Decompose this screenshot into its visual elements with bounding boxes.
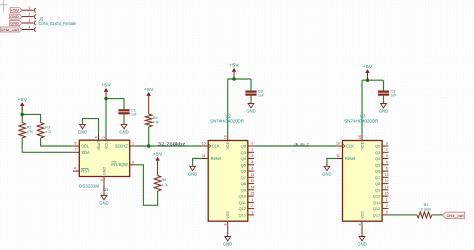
U1 pin 7 SDA — [73, 151, 79, 153]
svg-text:11: 11 — [336, 154, 340, 158]
U2 pin 15 Q10 — [248, 195, 254, 197]
svg-text:R6: R6 — [162, 178, 167, 182]
svg-text:SDA: SDA — [81, 150, 90, 155]
svg-text:GND: GND — [103, 167, 107, 176]
svg-text:Q5: Q5 — [241, 162, 247, 167]
svg-text:5: 5 — [251, 154, 253, 158]
resistor R2 — [19, 123, 26, 138]
wire VBAT to ground — [83, 119, 99, 134]
power +5V (U3) — [367, 72, 369, 81]
wire clk_div_2 net — [254, 145, 336, 147]
svg-text:Q0: Q0 — [241, 144, 247, 149]
U3 pin 10 CLK — [336, 145, 342, 147]
svg-text:Q11: Q11 — [373, 200, 381, 205]
ground below U1 — [103, 183, 105, 196]
wire C3 to ground — [383, 95, 385, 104]
svg-text:INT/SQW: INT/SQW — [111, 162, 128, 167]
connector J5 pin 1 — [22, 9, 34, 11]
svg-text:1uF: 1uF — [131, 112, 137, 116]
svg-text:Q3: Q3 — [241, 150, 247, 155]
ground (C3) — [381, 104, 387, 108]
svg-text:DS3231M: DS3231M — [79, 183, 100, 188]
global label GND (J5 pin 3) — [10, 21, 22, 26]
U2 pin 9 Q0 — [248, 145, 254, 147]
power +5V (R2/R3) — [21, 105, 23, 115]
wire C2 to ground — [250, 95, 252, 104]
svg-text:32.768khz: 32.768khz — [158, 141, 186, 146]
svg-text:SN74HC4020DR: SN74HC4020DR — [210, 119, 244, 124]
svg-text:1uF: 1uF — [258, 94, 264, 98]
svg-text:Q13: Q13 — [238, 212, 246, 217]
svg-text:GND: GND — [322, 171, 331, 176]
U3 pin 5 Q4 — [382, 158, 388, 160]
svg-text:Q5: Q5 — [375, 162, 381, 167]
svg-text:Q0: Q0 — [375, 144, 381, 149]
svg-text:Q6: Q6 — [241, 169, 247, 174]
U2 pin 12 Q8 — [248, 183, 254, 185]
svg-text:GND: GND — [119, 129, 128, 134]
U1 pin 3 INT/SQW — [130, 164, 136, 166]
svg-text:GND: GND — [246, 109, 255, 114]
svg-text:CLK: CLK — [346, 144, 354, 149]
U2 pin 14 Q9 — [248, 189, 254, 191]
wire R1 to 1Hz_out label — [432, 214, 443, 216]
svg-text:1: 1 — [251, 198, 253, 202]
svg-text:GND: GND — [379, 109, 388, 114]
svg-text:1Hz_out: 1Hz_out — [1, 28, 19, 32]
svg-text:3: 3 — [28, 19, 30, 23]
svg-text:VBAT: VBAT — [97, 140, 101, 150]
junction (R5 on clock net) — [147, 144, 150, 147]
svg-text:+5V: +5V — [363, 64, 373, 69]
wire +5V to R2/R3 tops — [21, 107, 23, 123]
svg-text:Q3: Q3 — [375, 150, 381, 155]
U2 pin 7 Q3 — [248, 151, 254, 153]
wire +5V rail U2 — [228, 78, 251, 80]
svg-text:Q4: Q4 — [375, 156, 381, 161]
U3 pin 7 Q3 — [382, 151, 388, 153]
svg-text:GND: GND — [99, 200, 108, 205]
op-amp U1 body (DS3231M RTC) — [79, 140, 129, 176]
wire R2 to SDA — [22, 138, 73, 152]
U3 pin 16 VDD — [361, 134, 363, 140]
svg-text:SCL: SCL — [81, 144, 90, 149]
svg-text:Q8: Q8 — [241, 181, 247, 186]
svg-text:3: 3 — [251, 211, 253, 215]
svg-text:VCC: VCC — [105, 141, 109, 149]
svg-text:VDD: VDD — [226, 141, 230, 149]
U1 pin 1 32KHZ — [130, 145, 136, 147]
power +5V (U1 VCC) — [105, 91, 107, 99]
svg-text:11: 11 — [202, 154, 206, 158]
svg-text:7: 7 — [386, 148, 388, 152]
connector J5 pin 3 — [22, 22, 34, 24]
U2 pin 10 CLK — [202, 145, 208, 147]
global label +5V (J5 pin 1) — [10, 8, 22, 13]
svg-text:GND: GND — [357, 242, 366, 247]
wire +5V to VCC and C1 — [105, 99, 107, 135]
svg-text:Q7: Q7 — [375, 175, 381, 180]
U3 pin 11 Reset — [336, 158, 342, 160]
U3 pin 8 VSS — [361, 221, 363, 227]
svg-text:Q7: Q7 — [241, 175, 247, 180]
U1 pin 4 RST — [73, 170, 79, 172]
svg-text:8: 8 — [75, 142, 77, 146]
U2 pin 1 Q11 — [248, 201, 254, 203]
U1 pin 5 GND — [103, 177, 105, 183]
svg-text:+5V: +5V — [229, 63, 239, 68]
wire U2 Reset to ground — [193, 159, 202, 167]
capacitor C2 — [245, 90, 256, 92]
svg-text:4.7k: 4.7k — [162, 183, 168, 187]
U2 pin 3 Q13 — [248, 214, 254, 216]
svg-text:Reset: Reset — [211, 156, 222, 161]
svg-text:2: 2 — [386, 204, 388, 208]
resistor R6 — [154, 176, 161, 192]
svg-text:Q4: Q4 — [241, 156, 247, 161]
svg-text:16: 16 — [358, 135, 362, 139]
svg-text:13: 13 — [385, 173, 389, 177]
U3 pin 9 Q0 — [382, 145, 388, 147]
U1 pin 6 VBAT — [98, 134, 100, 140]
svg-text:+5V: +5V — [101, 83, 111, 88]
wire INT/SQW to R6 — [136, 165, 158, 206]
junction (VCC/C1) — [104, 97, 107, 100]
svg-text:2: 2 — [28, 13, 30, 17]
svg-text:9: 9 — [386, 142, 388, 146]
U2 pin 2 Q12 — [248, 208, 254, 210]
svg-text:GND: GND — [10, 21, 19, 25]
svg-text:Q9: Q9 — [241, 187, 247, 192]
U2 pin 11 Reset — [202, 158, 208, 160]
svg-text:4.7k: 4.7k — [27, 130, 33, 134]
svg-text:12: 12 — [250, 179, 254, 183]
svg-text:Q10: Q10 — [373, 194, 381, 199]
U2 pin 6 Q6 — [248, 170, 254, 172]
ground (C1) — [121, 124, 127, 128]
power +5V (U2) — [233, 71, 235, 80]
svg-text:0 ohm: 0 ohm — [421, 208, 431, 212]
svg-text:+5V: +5V — [11, 9, 21, 13]
svg-text:4: 4 — [28, 26, 30, 30]
svg-text:+5V: +5V — [144, 87, 154, 92]
svg-text:6: 6 — [251, 167, 253, 171]
svg-text:1: 1 — [28, 6, 30, 10]
wire U3 Reset to ground — [327, 159, 336, 167]
U3 pin 3 Q13 — [382, 214, 388, 216]
resistor R3 — [37, 123, 44, 138]
svg-text:GND: GND — [188, 171, 197, 176]
junction (R2/R3 +5V) — [21, 113, 24, 116]
svg-text:R3: R3 — [45, 126, 50, 130]
svg-text:+5V: +5V — [17, 97, 27, 102]
counter U3 body (SN74HC4020) — [343, 141, 383, 222]
svg-text:8: 8 — [224, 223, 228, 225]
svg-text:15: 15 — [385, 192, 389, 196]
ground (U3 Reset) — [324, 166, 330, 170]
svg-text:Conn_01x04_Female: Conn_01x04_Female — [39, 21, 77, 26]
svg-text:9: 9 — [251, 142, 253, 146]
ground (C2) — [248, 104, 254, 108]
ground (U2 VSS) — [227, 228, 229, 237]
svg-text:2: 2 — [102, 136, 106, 138]
U2 pin 8 VSS — [227, 221, 229, 227]
svg-text:1uF: 1uF — [391, 94, 397, 98]
svg-text:1Hz_out: 1Hz_out — [447, 213, 465, 218]
svg-text:3: 3 — [386, 211, 388, 215]
svg-text:10: 10 — [336, 142, 340, 146]
svg-text:1: 1 — [132, 142, 134, 146]
svg-text:14: 14 — [385, 185, 389, 189]
U2 pin 13 Q7 — [248, 176, 254, 178]
svg-text:VSS: VSS — [226, 211, 230, 219]
svg-text:5: 5 — [100, 179, 104, 181]
power +5V (R6) — [157, 159, 159, 175]
svg-text:4: 4 — [251, 160, 253, 164]
svg-text:1: 1 — [386, 198, 388, 202]
svg-text:Q11: Q11 — [239, 200, 247, 205]
global label GND (J5 pin 2) — [10, 14, 22, 19]
svg-text:+5V: +5V — [153, 152, 163, 157]
svg-text:GND: GND — [10, 15, 19, 19]
svg-text:Q6: Q6 — [375, 169, 381, 174]
wire C1 to ground — [123, 113, 125, 124]
svg-text:R1: R1 — [424, 203, 429, 207]
svg-text:R5: R5 — [153, 116, 158, 120]
U3 pin 4 Q5 — [382, 164, 388, 166]
svg-text:VDD: VDD — [361, 141, 365, 149]
svg-text:Q13: Q13 — [373, 212, 381, 217]
U3 pin 14 Q9 — [382, 189, 388, 191]
resistor R1 — [417, 212, 432, 218]
U3 pin 12 Q8 — [382, 183, 388, 185]
svg-text:GND: GND — [223, 242, 232, 247]
resistor R5 — [145, 114, 152, 127]
U3 pin 2 Q12 — [382, 208, 388, 210]
global label 1Hz_out — [442, 212, 465, 218]
U3 pin 15 Q10 — [382, 195, 388, 197]
U2 pin 4 Q5 — [248, 164, 254, 166]
svg-text:4.7k: 4.7k — [153, 121, 159, 125]
svg-text:Q12: Q12 — [373, 206, 381, 211]
U1 pin 2 VCC — [105, 134, 107, 140]
capacitor C3 — [378, 90, 389, 92]
wire R3 to SCL — [41, 138, 73, 146]
U3 pin 1 Q11 — [382, 201, 388, 203]
svg-text:7: 7 — [251, 148, 253, 152]
svg-text:4.7k: 4.7k — [45, 130, 51, 134]
svg-text:8: 8 — [358, 223, 362, 225]
wire +5V rail U3 — [362, 79, 384, 81]
ground (U3 VSS) — [361, 228, 363, 237]
junction (+5V U3) — [366, 79, 369, 82]
svg-text:Reset: Reset — [345, 156, 356, 161]
svg-text:5: 5 — [386, 154, 388, 158]
svg-text:Q12: Q12 — [238, 206, 246, 211]
sheet origin marker — [0, 4, 8, 6]
svg-text:Q10: Q10 — [238, 194, 246, 199]
capacitor C1 — [118, 109, 129, 111]
global label 1Hz_out (J5 pin 4) — [0, 27, 22, 32]
svg-text:Q9: Q9 — [375, 187, 381, 192]
svg-text:10: 10 — [202, 142, 206, 146]
svg-text:16: 16 — [224, 135, 228, 139]
svg-text:SN74HC4020DR: SN74HC4020DR — [344, 119, 378, 124]
svg-text:14: 14 — [250, 185, 254, 189]
connector J5 pin 4 — [22, 29, 34, 31]
ground (VBAT) — [80, 124, 86, 128]
U3 pin 13 Q7 — [382, 176, 388, 178]
connector J5 pin 2 — [22, 16, 34, 18]
U2 pin 5 Q4 — [248, 158, 254, 160]
U3 pin 6 Q6 — [382, 170, 388, 172]
svg-text:GND: GND — [78, 129, 87, 134]
svg-text:6: 6 — [386, 167, 388, 171]
svg-text:13: 13 — [250, 173, 254, 177]
svg-text:6: 6 — [94, 136, 98, 138]
svg-text:7: 7 — [75, 148, 77, 152]
svg-text:2: 2 — [251, 204, 253, 208]
wire R5 to clock net — [148, 127, 150, 146]
power +5V (R5) — [148, 95, 150, 115]
U1 pin 8 SCL — [73, 145, 79, 147]
svg-text:4: 4 — [74, 167, 76, 171]
U2 pin 16 VDD — [227, 134, 229, 140]
svg-text:15: 15 — [250, 192, 254, 196]
svg-text:clk_div_2: clk_div_2 — [294, 141, 309, 146]
svg-text:Q8: Q8 — [375, 181, 381, 186]
wire Q13 to R1 — [388, 214, 417, 216]
svg-text:CLK: CLK — [212, 144, 220, 149]
svg-text:12: 12 — [385, 179, 389, 183]
svg-text:R2: R2 — [27, 126, 32, 130]
svg-text:32KHZ: 32KHZ — [115, 144, 128, 149]
counter U2 body (SN74HC4020) — [208, 141, 248, 222]
svg-text:4: 4 — [386, 160, 388, 164]
svg-text:VSS: VSS — [361, 211, 365, 219]
wire 32.768khz net — [136, 145, 202, 147]
ground (U2 Reset) — [190, 166, 196, 170]
svg-text:3: 3 — [132, 160, 134, 164]
svg-text:RST: RST — [81, 169, 90, 174]
junction (+5V U2) — [232, 77, 235, 80]
